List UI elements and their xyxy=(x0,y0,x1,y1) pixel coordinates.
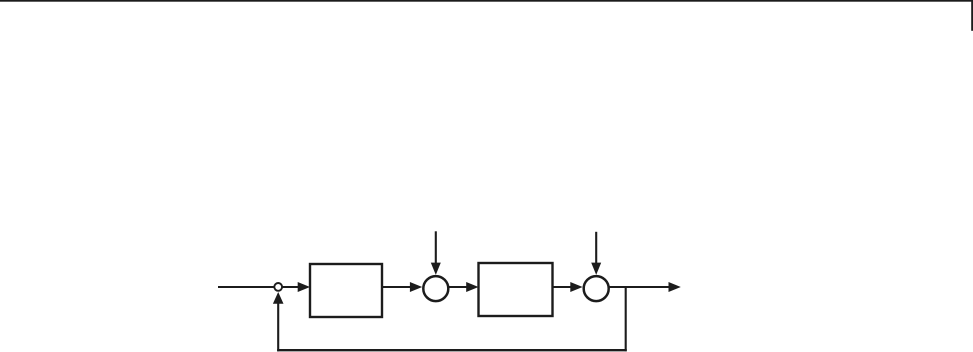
wire output line C xyxy=(609,286,670,288)
wire feedback drop (right vertical) xyxy=(625,286,627,351)
wire block G1 to summing junction S1 xyxy=(382,286,412,288)
wire summing junction S1 to block G2 xyxy=(449,286,469,288)
arrowhead into summing junction S1 xyxy=(410,282,422,292)
arrowhead disturbance D1 into S1 xyxy=(431,263,441,275)
block G1 xyxy=(310,264,382,317)
wire disturbance input D1 (vertical) xyxy=(435,231,437,264)
node takeoff point (pickoff circle) xyxy=(274,283,282,291)
arrowhead output xyxy=(669,282,681,292)
wire input line R xyxy=(218,286,275,288)
wire feedback bottom run xyxy=(277,349,627,351)
arrowhead into block G1 xyxy=(298,282,310,292)
arrowhead into block G2 xyxy=(466,282,478,292)
summing junction S1 xyxy=(423,276,448,301)
summing junction S2 xyxy=(584,276,609,301)
wire block G2 to summing junction S2 xyxy=(553,286,573,288)
block G2 xyxy=(479,263,553,316)
wire disturbance input D2 (vertical) xyxy=(595,232,597,265)
arrowhead disturbance D2 into S2 xyxy=(591,263,601,275)
wire takeoff to block G1 xyxy=(283,286,300,288)
wire feedback rise (left vertical) xyxy=(277,302,279,351)
arrowhead into summing junction S2 xyxy=(570,282,582,292)
arrowhead feedback into takeoff point xyxy=(273,292,284,304)
